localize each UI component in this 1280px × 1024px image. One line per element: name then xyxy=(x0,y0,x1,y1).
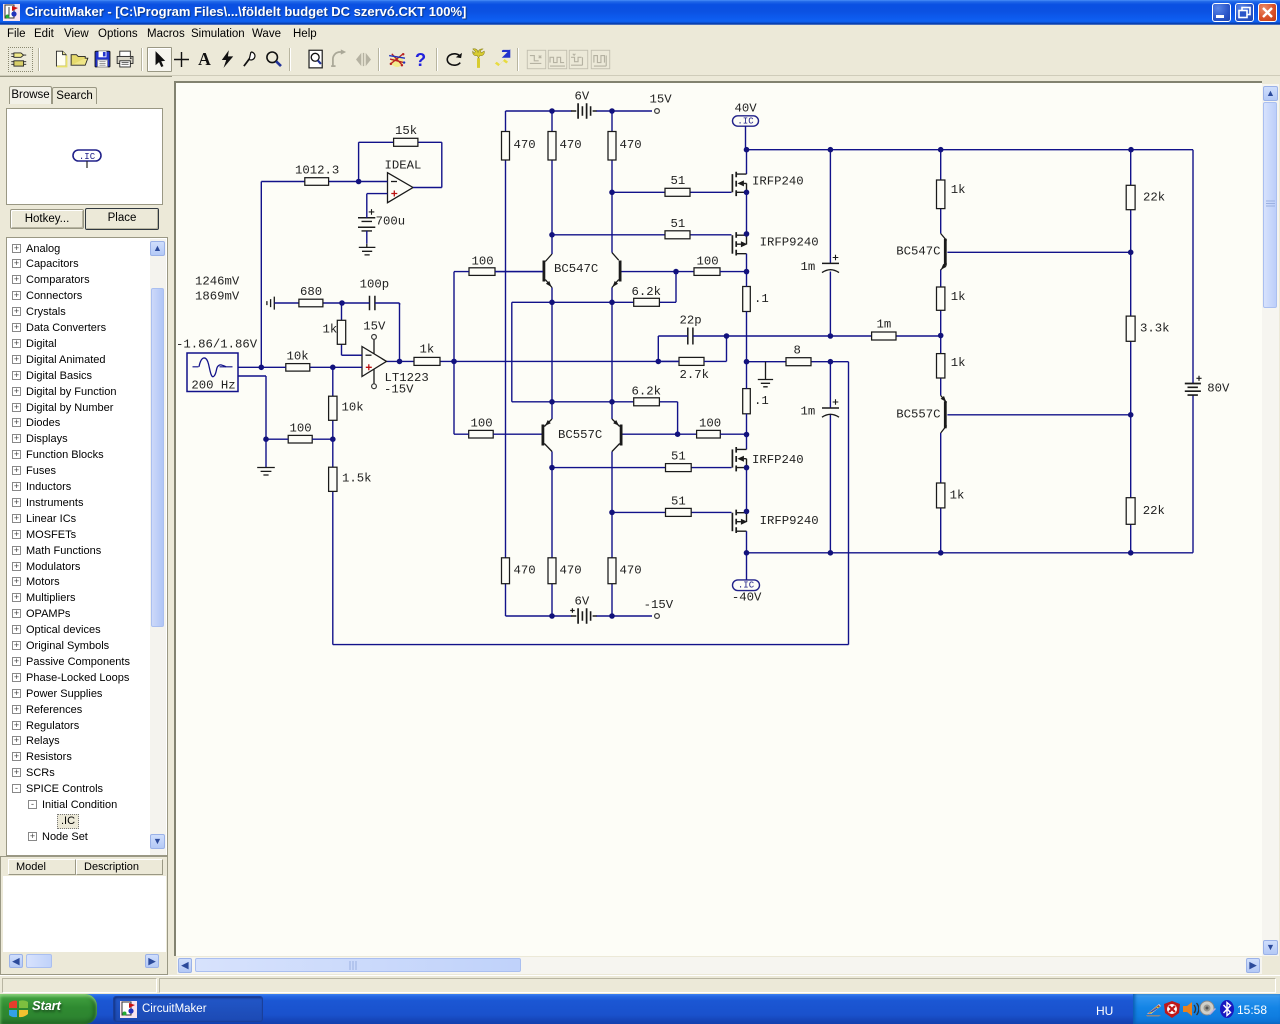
resistor R33 1k xyxy=(323,320,346,344)
wire right column xyxy=(940,150,942,553)
node A1 xyxy=(549,108,555,114)
node V2 xyxy=(330,365,336,371)
svg-text:BC547C: BC547C xyxy=(896,245,940,259)
wire gate wire 51b xyxy=(552,234,732,236)
terminal -15V supply xyxy=(644,598,674,618)
node S2 xyxy=(1128,412,1134,418)
battery B3 80V xyxy=(1185,376,1230,396)
svg-text:200 Hz: 200 Hz xyxy=(191,378,235,392)
svg-text:15k: 15k xyxy=(395,124,417,138)
ground below 700u xyxy=(359,244,376,255)
wire M4 drain wire xyxy=(746,531,748,553)
wire lower base link xyxy=(454,433,543,435)
svg-text:51: 51 xyxy=(671,174,686,188)
transistor Q4 BC557C right xyxy=(612,419,621,452)
wire op-amp output line xyxy=(387,360,680,362)
wire input column xyxy=(260,182,262,368)
resistor R35 10k xyxy=(329,396,364,420)
node Q2d xyxy=(938,550,944,556)
svg-text:15V: 15V xyxy=(363,320,386,334)
svg-text:100: 100 xyxy=(290,422,312,436)
node V1a xyxy=(259,365,265,371)
wire column 470-2 xyxy=(551,111,553,616)
svg-text:6V: 6V xyxy=(575,595,590,609)
svg-text:.IC: .IC xyxy=(79,152,96,162)
svg-text:1k: 1k xyxy=(951,183,966,197)
terminal 15V supply xyxy=(650,93,673,114)
svg-text:15V: 15V xyxy=(650,93,673,107)
op-amp U2 LT1223 xyxy=(362,320,429,397)
resistor R29 22k xyxy=(1126,498,1165,525)
wire M2 drain wire xyxy=(746,254,748,272)
svg-text:.1: .1 xyxy=(754,394,769,408)
svg-text:1k: 1k xyxy=(950,489,965,503)
wire 22k column xyxy=(1130,150,1132,553)
wire tail connector xyxy=(511,302,513,402)
wire to 10k xyxy=(261,366,286,368)
node F2 xyxy=(724,333,730,339)
resistor R30 15k xyxy=(394,124,418,147)
wire column 470-3 xyxy=(611,111,613,616)
svg-text:1k: 1k xyxy=(951,356,966,370)
wire gate wire 51a xyxy=(612,191,732,193)
transistor M1 IRFP240 upper xyxy=(732,172,803,196)
svg-text:1k: 1k xyxy=(951,290,966,304)
svg-text:6V: 6V xyxy=(575,90,590,104)
resistor R31 1012.3 xyxy=(295,164,339,186)
wire pill bottom wire xyxy=(746,553,748,580)
svg-text:-1.86/1.86V: -1.86/1.86V xyxy=(176,337,258,351)
svg-text:51: 51 xyxy=(671,450,686,464)
svg-text:3.3k: 3.3k xyxy=(1140,322,1170,336)
resistor R37 1.5k xyxy=(329,467,372,491)
resistor R15 470 xyxy=(608,558,642,584)
wire gate wire 51d xyxy=(612,511,732,513)
node K1 xyxy=(549,399,555,405)
node K2 xyxy=(609,399,615,405)
svg-text:22k: 22k xyxy=(1143,190,1165,204)
node L2 xyxy=(609,510,615,516)
resistor R16 100 xyxy=(469,417,494,439)
svg-text:10k: 10k xyxy=(342,400,364,414)
node X2 xyxy=(609,613,615,619)
svg-text:470: 470 xyxy=(514,564,536,578)
wire 22p wires xyxy=(658,336,726,361)
wire U1 minus input xyxy=(359,181,388,183)
wire to 1.5k xyxy=(332,439,334,467)
wire source top out xyxy=(238,366,261,368)
svg-text:470: 470 xyxy=(514,138,536,152)
svg-text:-40V: -40V xyxy=(732,590,762,604)
node S1 xyxy=(1128,250,1134,256)
wire U2 minus input xyxy=(342,354,363,356)
node Q1d xyxy=(828,550,834,556)
svg-text:470: 470 xyxy=(560,564,582,578)
wire column 470-1 xyxy=(505,111,507,616)
ground left of 680 xyxy=(267,297,274,310)
svg-text:1m: 1m xyxy=(801,260,816,274)
svg-text:1k: 1k xyxy=(420,343,435,357)
wire bottom -15V rail xyxy=(506,615,653,617)
node G2 xyxy=(451,359,457,365)
node P2 xyxy=(938,147,944,153)
svg-text:IRFP9240: IRFP9240 xyxy=(760,514,819,528)
node M4 IRFP9240 lower source pin xyxy=(744,509,750,515)
resistor R24 1k xyxy=(937,287,966,310)
svg-text:22p: 22p xyxy=(680,314,702,328)
svg-text:51: 51 xyxy=(671,217,686,231)
svg-text:2.7k: 2.7k xyxy=(680,368,710,382)
node Q0 xyxy=(744,550,750,556)
node H2 xyxy=(828,359,834,365)
svg-text:.IC: .IC xyxy=(738,581,755,591)
resistor R7 100 xyxy=(694,255,720,276)
resistor R23 1k xyxy=(937,180,966,209)
wire upper 1m cap column xyxy=(829,150,831,336)
resistor R5 51 xyxy=(665,217,690,239)
node H1 xyxy=(744,359,750,365)
wire 100p to output xyxy=(399,303,401,361)
transistor Q6 BC557C xyxy=(896,396,946,434)
node M1 IRFP240 upper source pin xyxy=(744,190,750,196)
svg-text:.1: .1 xyxy=(754,292,769,306)
node W2 xyxy=(330,436,336,442)
node D5 xyxy=(744,269,750,275)
wire lower emitter rail xyxy=(512,402,678,434)
resistor R1 470 xyxy=(502,132,536,161)
wire 680 wires xyxy=(274,302,342,304)
svg-text:BC557C: BC557C xyxy=(896,408,940,422)
resistor R11 1k xyxy=(414,343,440,366)
node T1 xyxy=(356,179,362,185)
capacitor C2 22p xyxy=(680,314,702,345)
wire M3-M4 source link xyxy=(746,468,748,512)
svg-text:100: 100 xyxy=(471,417,493,431)
resistor R22 .1 lower xyxy=(743,389,769,414)
wire 1012.3 wires xyxy=(261,181,358,183)
node M2 IRFP9240 upper source pin xyxy=(744,231,750,237)
ground below source xyxy=(257,439,275,475)
svg-text:?: ? xyxy=(415,49,426,70)
transistor M2 IRFP9240 upper xyxy=(732,232,818,255)
svg-text:80V: 80V xyxy=(1207,382,1230,396)
wire U1 output xyxy=(413,142,442,187)
wire Q1 base xyxy=(495,271,543,273)
SPICE .IC initial condition top (40V) xyxy=(733,101,759,126)
transistor M4 IRFP9240 lower xyxy=(732,510,818,533)
resistor R4 51 xyxy=(665,174,690,196)
node P0 xyxy=(744,147,750,153)
wire 10k vert column xyxy=(332,367,334,439)
svg-text:1k: 1k xyxy=(323,323,338,337)
wire R7 to column xyxy=(720,271,747,273)
wire Q6 base wire xyxy=(947,414,1130,416)
wire Q2 base to R7 xyxy=(622,271,695,273)
svg-text:1246mV: 1246mV xyxy=(195,275,240,289)
wire 700u wires xyxy=(366,212,368,244)
svg-text:470: 470 xyxy=(620,564,642,578)
svg-text:700u: 700u xyxy=(376,215,406,229)
wire upper emitter rail xyxy=(512,272,676,303)
wire output to bases column xyxy=(453,272,455,435)
svg-text:-15V: -15V xyxy=(384,383,414,397)
node P3 xyxy=(1128,147,1134,153)
resistor R32 680 xyxy=(299,285,323,307)
wire power loop rails xyxy=(747,150,1194,553)
svg-text:100: 100 xyxy=(472,255,494,269)
node R1d xyxy=(938,333,944,339)
wire U2 plus input xyxy=(310,366,362,368)
node C1 xyxy=(673,269,679,275)
svg-text:1.5k: 1.5k xyxy=(342,471,372,485)
resistor R36 100 xyxy=(288,422,312,444)
node Q3d xyxy=(1128,550,1134,556)
wire M1-M2 source link xyxy=(746,192,748,234)
node F3 xyxy=(828,333,834,339)
transistor Q2 BC547C right xyxy=(612,253,620,288)
resistor R26 1k xyxy=(937,483,965,508)
wire Q5 base wire xyxy=(947,251,1130,253)
svg-text:1869mV: 1869mV xyxy=(195,290,240,304)
resistor R3 470 xyxy=(608,132,642,161)
svg-text:1m: 1m xyxy=(801,405,816,419)
resistor R19 51 xyxy=(666,450,692,472)
svg-text:BC547C: BC547C xyxy=(554,262,598,276)
svg-text:6.2k: 6.2k xyxy=(632,285,662,299)
resistor R28 3.3k xyxy=(1126,316,1169,341)
ground near 8 xyxy=(758,362,773,387)
wire feedback loop xyxy=(333,362,849,645)
node F1 xyxy=(656,359,662,365)
resistor R13 470 xyxy=(502,558,536,584)
svg-text:IDEAL: IDEAL xyxy=(385,158,422,172)
resistor R17 8 xyxy=(786,343,811,365)
svg-text:22k: 22k xyxy=(1143,504,1165,518)
svg-text:100p: 100p xyxy=(360,277,390,291)
resistor R10 1m xyxy=(872,318,896,341)
node J1 xyxy=(675,431,681,437)
node E1 xyxy=(549,300,555,306)
svg-text:10k: 10k xyxy=(287,349,309,363)
svg-text:BC557C: BC557C xyxy=(558,428,602,442)
svg-text:1m: 1m xyxy=(877,318,892,332)
svg-text:.IC: .IC xyxy=(737,116,754,126)
svg-text:470: 470 xyxy=(620,138,642,152)
svg-text:IRFP240: IRFP240 xyxy=(752,174,804,188)
svg-text:100: 100 xyxy=(697,255,719,269)
node N1 xyxy=(744,432,750,438)
svg-text:A: A xyxy=(198,49,211,69)
source V1 sine 200Hz xyxy=(176,337,258,392)
wire source bottom out xyxy=(238,376,266,439)
node X1 xyxy=(549,613,555,619)
svg-text:40V: 40V xyxy=(735,101,758,115)
wire .1 column xyxy=(746,272,748,362)
wire U1 plus input xyxy=(367,194,388,212)
svg-text:100: 100 xyxy=(699,417,721,431)
wire M1 drain wire xyxy=(746,150,748,174)
resistor R18 6.2k lower xyxy=(632,384,662,406)
node B1 xyxy=(609,190,615,196)
wire gate wire 51c xyxy=(552,467,732,469)
wire 1k fb wires xyxy=(342,303,363,355)
resistor R8 .1 upper xyxy=(743,287,769,312)
wire 2.7k wires xyxy=(658,336,726,361)
node W1 xyxy=(263,436,269,442)
node M3 IRFP240 lower source pin xyxy=(744,465,750,471)
svg-text:680: 680 xyxy=(300,285,322,299)
transistor Q1 BC547C left xyxy=(544,254,552,288)
wire Q4 base to R16b xyxy=(623,433,697,435)
node U1d xyxy=(339,300,345,306)
resistor R27 22k xyxy=(1126,185,1165,209)
resistor R2 470 xyxy=(548,132,582,161)
resistor R14 470 xyxy=(548,558,582,584)
capacitor C4 1m lower xyxy=(801,399,840,418)
wire 15k loop xyxy=(359,142,442,181)
capacitor C3 1m upper xyxy=(801,255,840,274)
capacitor C1 700u xyxy=(358,209,405,231)
wire upper base link xyxy=(454,271,543,273)
wire lower 1m cap column xyxy=(829,362,831,553)
node P1 xyxy=(828,147,834,153)
capacitor C5 100p xyxy=(360,277,390,310)
svg-text:IRFP240: IRFP240 xyxy=(752,453,804,467)
transistor Q5 BC547C xyxy=(896,234,946,271)
node E2 xyxy=(609,300,615,306)
resistor R20 51 xyxy=(666,495,692,517)
battery B1 6V xyxy=(571,90,597,119)
resistor R6 6.2k upper xyxy=(632,285,662,306)
transistor Q3 BC557C left xyxy=(543,419,552,452)
wire .1 lower column xyxy=(746,362,748,435)
svg-text:51: 51 xyxy=(671,495,686,509)
resistor R12 100 xyxy=(469,255,495,276)
node B2 xyxy=(549,232,555,238)
resistor R21 100 xyxy=(697,417,722,439)
resistor R25 1k xyxy=(937,354,966,378)
svg-text:1012.3: 1012.3 xyxy=(295,164,339,178)
svg-text:470: 470 xyxy=(560,138,582,152)
node G1 xyxy=(397,359,403,365)
battery B2 6V xyxy=(570,595,596,624)
wire R21 to column xyxy=(720,433,746,435)
wire top 6V rail xyxy=(506,110,653,112)
svg-text:8: 8 xyxy=(794,343,801,357)
svg-text:-15V: -15V xyxy=(644,598,674,612)
resistor R9 2.7k xyxy=(679,357,709,382)
transistor M3 IRFP240 lower xyxy=(732,447,803,471)
SPICE .IC initial condition bottom (-40V) xyxy=(732,580,762,604)
op-amp U1 IDEAL xyxy=(385,158,422,202)
node A2 xyxy=(609,108,615,114)
svg-text:IRFP9240: IRFP9240 xyxy=(760,236,819,250)
wire pill top wire xyxy=(745,126,747,150)
resistor R34 10k xyxy=(286,349,310,371)
svg-text:6.2k: 6.2k xyxy=(632,384,662,398)
wire 100 wires xyxy=(266,438,333,440)
node L1 xyxy=(549,465,555,471)
wire comp rail xyxy=(727,335,941,338)
wire M3 drain wire xyxy=(746,435,748,450)
wire 100p wires xyxy=(342,303,400,305)
